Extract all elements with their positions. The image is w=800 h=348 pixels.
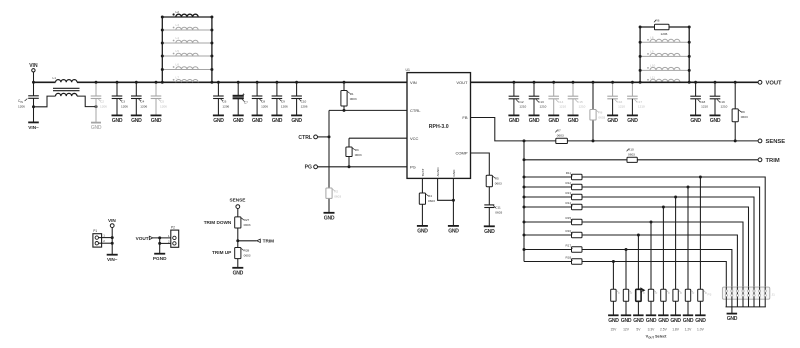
svg-text:GND: GND — [690, 118, 701, 124]
svg-text:GND: GND — [233, 270, 244, 276]
svg-text:TRIM UP: TRIM UP — [212, 250, 231, 255]
wire drop from rung 8 — [612, 262, 614, 290]
wire P1 vertical — [111, 228, 114, 255]
node VOUT label lower — [136, 236, 153, 241]
ground under C2 — [91, 123, 102, 132]
node VOUT terminal — [758, 80, 782, 86]
resistor R11 rung — [523, 171, 766, 287]
svg-text:L11: L11 — [650, 76, 655, 80]
capacitor C4 — [131, 81, 147, 116]
svg-text:C18: C18 — [700, 100, 706, 104]
svg-text:COMP: COMP — [456, 151, 468, 156]
node VIN terminal lower — [108, 218, 116, 227]
svg-text:P2: P2 — [171, 226, 175, 230]
svg-text:0603: 0603 — [334, 195, 341, 199]
wire drop from rung 7 — [625, 250, 627, 290]
svg-text:1210: 1210 — [579, 105, 586, 109]
svg-text:GND: GND — [417, 229, 428, 235]
connector J1 header — [708, 287, 776, 307]
wire header bottom bus — [726, 306, 766, 308]
resistor R21 vout-select 5V — [636, 287, 646, 315]
svg-text:GND: GND — [252, 118, 263, 124]
svg-text:1206: 1206 — [261, 104, 268, 108]
capacitor C6 — [213, 81, 229, 116]
svg-text:GND: GND — [695, 318, 706, 324]
ground under C17 — [627, 115, 638, 124]
wire drop from rung 6 — [637, 235, 639, 289]
capacitor C14 (DNI) — [548, 81, 566, 116]
svg-text:C13: C13 — [538, 100, 544, 104]
svg-text:GND: GND — [324, 215, 335, 221]
resistor R2 (DNI) — [326, 188, 341, 199]
svg-text:0603: 0603 — [355, 153, 362, 157]
capacitor C12 — [509, 81, 527, 116]
svg-text:R9: R9 — [741, 110, 745, 114]
wire left bank right rail — [210, 17, 213, 84]
capacitor C19 — [710, 81, 728, 116]
svg-text:R14: R14 — [565, 201, 571, 205]
svg-text:1206: 1206 — [140, 104, 147, 108]
label VOUT Select — [646, 335, 667, 340]
svg-text:C6: C6 — [222, 100, 226, 104]
svg-text:PGND: PGND — [153, 256, 167, 261]
svg-text:VOUT: VOUT — [456, 80, 468, 85]
wire ladder bus — [523, 141, 525, 262]
inductor L3 (DNI) — [161, 23, 214, 31]
wire input rail bank to IC — [212, 81, 407, 83]
svg-text:R5: R5 — [495, 176, 499, 180]
svg-text:GND: GND — [633, 318, 644, 324]
svg-text:P3: P3 — [708, 293, 712, 297]
resistor R6 — [639, 19, 691, 36]
svg-text:SENSE: SENSE — [766, 139, 786, 145]
resistor R14 rung — [523, 201, 749, 287]
svg-text:CTRL: CTRL — [410, 108, 421, 113]
wire drop from rung 1 — [699, 177, 701, 289]
node SENSE label lower — [230, 197, 246, 208]
svg-text:R8: R8 — [598, 111, 602, 115]
svg-text:1210: 1210 — [721, 105, 728, 109]
svg-text:C3: C3 — [121, 100, 125, 104]
svg-text:GND: GND — [452, 169, 456, 177]
svg-text:VIN–: VIN– — [28, 125, 39, 130]
svg-text:C19: C19 — [719, 100, 725, 104]
svg-text:1206: 1206 — [281, 104, 288, 108]
svg-text:L7: L7 — [176, 76, 180, 80]
svg-text:0603: 0603 — [244, 223, 251, 227]
svg-text:C2: C2 — [100, 100, 104, 104]
node TRIM terminal — [758, 158, 780, 164]
svg-text:1.8V: 1.8V — [672, 327, 680, 331]
ground under C7 — [233, 115, 244, 124]
svg-text:FB: FB — [462, 115, 467, 120]
resistor R16 rung — [523, 229, 738, 287]
svg-text:L5: L5 — [176, 49, 180, 53]
svg-text:L4: L4 — [176, 36, 180, 40]
resistor R13 rung — [523, 191, 755, 287]
svg-text:GND: GND — [151, 118, 162, 124]
wire trim line left — [523, 158, 628, 161]
svg-text:1210: 1210 — [519, 105, 526, 109]
svg-text:GND: GND — [548, 118, 559, 124]
svg-text:VIN: VIN — [410, 80, 417, 85]
svg-text:L10: L10 — [650, 64, 655, 68]
resistor R5 — [486, 175, 502, 187]
svg-text:R15: R15 — [565, 216, 571, 220]
wire COMP line — [471, 153, 490, 175]
wire GND pin — [452, 178, 454, 226]
node CTRL terminal — [298, 135, 329, 141]
svg-text:CTRL: CTRL — [298, 135, 312, 141]
svg-text:C17: C17 — [636, 100, 642, 104]
svg-text:R16: R16 — [565, 229, 571, 233]
svg-text:TRIM: TRIM — [263, 239, 275, 244]
ground under C16 — [607, 115, 618, 124]
label 2.5V — [660, 327, 668, 331]
svg-text:15V: 15V — [610, 327, 617, 331]
resistor R4 — [419, 178, 435, 226]
svg-text:1206: 1206 — [160, 104, 167, 108]
svg-text:3.3V: 3.3V — [648, 327, 656, 331]
svg-text:GND: GND — [608, 318, 619, 324]
svg-text:0603: 0603 — [428, 199, 435, 203]
capacitor C8 — [252, 81, 268, 116]
svg-text:TEST: TEST — [421, 168, 425, 176]
wire trim line right — [637, 159, 758, 161]
capacitor C17 (DNI) — [627, 81, 645, 116]
inductor L10 (DNI) — [639, 64, 691, 72]
svg-text:PG: PG — [305, 165, 312, 171]
capacitor C7 polarized — [233, 81, 249, 116]
ground under vout-select 15V — [608, 315, 619, 324]
resistor R23 vout-select 2.5V — [661, 289, 670, 315]
label 3.3V — [648, 327, 656, 331]
ground under C10 — [291, 115, 302, 124]
ground under C5 — [151, 115, 162, 124]
svg-text:VOUT Select: VOUT Select — [646, 335, 667, 340]
ground under R2 — [324, 213, 335, 222]
svg-text:R2: R2 — [334, 190, 338, 194]
wire drop from rung 3 — [675, 197, 677, 289]
ground under C13 — [529, 115, 540, 124]
svg-text:R27: R27 — [244, 218, 250, 222]
svg-text:0603: 0603 — [557, 134, 564, 138]
svg-text:GND: GND — [658, 318, 669, 324]
svg-text:GND: GND — [509, 118, 520, 124]
svg-text:C7: C7 — [244, 100, 248, 104]
svg-text:C15: C15 — [577, 100, 583, 104]
resistor R24 vout-select 1.8V — [673, 289, 682, 315]
svg-text:C12: C12 — [518, 100, 524, 104]
wire choke secondary right return — [77, 96, 98, 108]
svg-text:1206: 1206 — [121, 104, 128, 108]
svg-text:GND: GND — [646, 318, 657, 324]
svg-text:GND: GND — [448, 229, 459, 235]
svg-text:GND: GND — [272, 118, 283, 124]
svg-text:AGND: AGND — [436, 167, 440, 177]
svg-text:C8: C8 — [261, 100, 265, 104]
capacitor C18 — [690, 81, 708, 116]
svg-text:1206: 1206 — [222, 104, 229, 108]
wire drop from rung 2 — [687, 187, 689, 289]
ground under GND pin — [448, 226, 459, 235]
wire sense line to terminal — [523, 139, 759, 142]
svg-text:R17: R17 — [565, 243, 571, 247]
svg-text:C11: C11 — [495, 206, 501, 210]
svg-text:L8: L8 — [650, 36, 654, 40]
ground under vout-select 12V — [621, 315, 632, 324]
svg-text:C5: C5 — [160, 100, 164, 104]
capacitor C9 — [272, 81, 288, 116]
ground under trim divider — [232, 268, 243, 277]
resistor R19 vout-select 15V — [611, 289, 620, 315]
wire header ground stub — [731, 307, 733, 314]
svg-text:1.0V: 1.0V — [697, 327, 705, 331]
ground under vout-select 1.0V — [695, 315, 706, 324]
svg-text:R18: R18 — [565, 255, 571, 259]
svg-text:PG: PG — [410, 165, 416, 170]
resistor R9 — [732, 81, 748, 141]
svg-text:12V: 12V — [623, 327, 630, 331]
svg-text:R6: R6 — [656, 19, 660, 23]
ground under vout-select 3.3V — [646, 315, 657, 324]
svg-text:L2: L2 — [176, 10, 180, 14]
svg-text:L1: L1 — [53, 76, 57, 80]
ground under vout-select 2.5V — [658, 315, 669, 324]
resistor R15 rung — [523, 216, 744, 287]
resistor R10 — [627, 148, 638, 163]
wire input rail left — [34, 81, 56, 83]
wire P2 pgnd drop — [158, 238, 171, 254]
svg-text:TRIM: TRIM — [766, 158, 780, 164]
inductor L7 (DNI) on rail — [173, 76, 199, 83]
wire AGND pin — [438, 178, 455, 201]
wire VIN to rail — [32, 72, 35, 84]
svg-text:J1: J1 — [772, 293, 776, 297]
wire VOUT to P2 — [153, 236, 171, 239]
svg-text:GND: GND — [607, 118, 618, 124]
label 5V — [636, 327, 641, 331]
capacitor C13 — [529, 81, 547, 116]
power PGND symbol — [153, 254, 167, 261]
capacitor C5 (DNI) — [151, 81, 167, 116]
svg-text:VCC: VCC — [410, 136, 419, 141]
inductor L8 (DNI) — [639, 36, 691, 44]
label 15V — [610, 327, 617, 331]
svg-text:GND: GND — [484, 229, 495, 235]
node SENSE terminal — [758, 139, 785, 145]
wire CTRL line — [329, 109, 407, 111]
ground under R4 — [417, 226, 428, 235]
svg-text:L3: L3 — [176, 23, 180, 27]
resistor R7 — [555, 129, 567, 144]
resistor R28 trim up — [212, 248, 251, 268]
svg-text:GND: GND — [112, 118, 123, 124]
wire drop from rung 5 — [650, 222, 652, 289]
svg-text:1210: 1210 — [559, 105, 566, 109]
capacitor C10 — [291, 81, 307, 116]
wire choke secondary left return — [34, 96, 56, 107]
inductor L2 — [161, 10, 214, 18]
wire vout rail — [640, 81, 758, 83]
wire PG line — [318, 165, 408, 168]
svg-text:C10: C10 — [301, 100, 307, 104]
svg-text:P1: P1 — [93, 229, 97, 233]
svg-text:1206: 1206 — [301, 104, 308, 108]
svg-text:VIN: VIN — [108, 218, 116, 223]
inductor L6 (DNI) — [161, 63, 214, 71]
resistor R3 — [346, 138, 362, 167]
resistor R22 vout-select 3.3V — [648, 289, 657, 315]
label 12V — [623, 327, 630, 331]
ground under C15 — [568, 115, 579, 124]
ground under header — [727, 314, 738, 323]
svg-text:GND: GND — [529, 118, 540, 124]
svg-text:L6: L6 — [176, 63, 180, 67]
label 1.8V — [672, 327, 680, 331]
resistor R18 rung — [524, 255, 726, 287]
resistor R17 rung — [523, 243, 732, 287]
svg-text:VIN: VIN — [29, 63, 38, 69]
svg-text:R3: R3 — [355, 148, 359, 152]
wire CTRL vertical — [328, 110, 331, 212]
ground under C11 — [484, 226, 495, 235]
inductor L5 (DNI) — [161, 49, 214, 57]
wire trim node — [236, 228, 256, 248]
svg-text:0603: 0603 — [628, 153, 635, 157]
svg-text:1206: 1206 — [100, 104, 107, 108]
svg-text:GND: GND — [91, 125, 102, 131]
wire left bank left rail — [161, 17, 164, 84]
wire input rail choke to bank — [77, 81, 212, 83]
capacitor C11 — [484, 187, 502, 227]
svg-text:SENSE: SENSE — [230, 197, 246, 202]
ground under C18 — [690, 115, 701, 124]
wire right bank right rail — [688, 27, 691, 84]
node PG terminal — [305, 165, 318, 171]
wire FB to sense line — [471, 118, 556, 141]
inductor L9 (DNI) — [639, 50, 691, 58]
svg-text:0603: 0603 — [244, 254, 251, 258]
ground under C14 — [548, 115, 559, 124]
wire output rail — [471, 81, 641, 83]
ground under C3 — [112, 115, 123, 124]
svg-text:C14: C14 — [558, 100, 564, 104]
resistor R8 (DNI) — [590, 81, 606, 141]
ground under C19 — [710, 115, 721, 124]
svg-text:GND: GND — [291, 118, 302, 124]
inductor L4 (DNI) — [161, 36, 214, 44]
resistor R26 vout-select 1.0V — [698, 289, 707, 315]
inductor L1 common-mode choke — [53, 76, 80, 96]
resistor R12 rung — [523, 181, 760, 287]
svg-text:0603: 0603 — [598, 116, 605, 120]
svg-text:GND: GND — [233, 118, 244, 124]
ground under C4 — [131, 115, 142, 124]
svg-text:0603: 0603 — [741, 115, 748, 119]
ground under vout-select 1.2V — [683, 315, 694, 324]
svg-text:GND: GND — [727, 316, 738, 322]
ground under vout-select 1.8V — [670, 315, 681, 324]
svg-text:R28: R28 — [244, 249, 250, 253]
wire drop from rung 4 — [662, 207, 664, 289]
svg-text:1210: 1210 — [701, 105, 708, 109]
svg-text:VOUT: VOUT — [136, 236, 149, 241]
svg-text:2.5V: 2.5V — [660, 327, 668, 331]
svg-text:L9: L9 — [650, 50, 654, 54]
svg-text:GND: GND — [568, 118, 579, 124]
svg-text:GND: GND — [621, 318, 632, 324]
svg-text:GND: GND — [683, 318, 694, 324]
ground under vout-select 5V — [633, 315, 644, 324]
svg-text:GND: GND — [710, 118, 721, 124]
wire VCC line — [349, 137, 407, 139]
svg-text:GND: GND — [213, 118, 224, 124]
svg-text:R10: R10 — [628, 148, 634, 152]
label 1.2V — [685, 327, 693, 331]
label 1.0V — [697, 327, 705, 331]
resistor R1 — [341, 81, 357, 112]
svg-text:0603: 0603 — [495, 181, 502, 185]
connector P1 — [93, 229, 112, 247]
svg-text:C16: C16 — [617, 100, 623, 104]
svg-text:R13: R13 — [565, 191, 571, 195]
svg-text:U1: U1 — [406, 68, 410, 72]
capacitor C15 (DNI) — [568, 81, 586, 116]
ground under C12 — [508, 115, 519, 124]
svg-text:1210: 1210 — [540, 105, 547, 109]
resistor R27 trim down — [204, 209, 251, 229]
node TRIM label lower — [257, 239, 274, 244]
svg-text:R12: R12 — [565, 181, 571, 185]
svg-text:C9: C9 — [281, 100, 285, 104]
capacitor C16 (DNI) — [607, 81, 625, 116]
wire right bank left rail — [639, 27, 642, 84]
op-amp U1 module RPH-3.0 — [406, 68, 471, 178]
capacitor C2 (DNI) — [91, 81, 107, 123]
svg-text:1206: 1206 — [661, 32, 668, 36]
capacitor C1 CIN — [18, 82, 39, 121]
ground under C8 — [252, 115, 263, 124]
power VIN- symbol — [28, 122, 39, 129]
resistor R20 vout-select 12V — [623, 289, 632, 315]
connector P2 — [168, 226, 179, 248]
svg-text:1210: 1210 — [638, 105, 645, 109]
svg-text:1.2V: 1.2V — [685, 327, 693, 331]
capacitor C3 — [112, 81, 128, 116]
svg-text:0603: 0603 — [350, 97, 357, 101]
svg-text:0603: 0603 — [495, 211, 502, 215]
node VIN terminal — [29, 63, 38, 72]
svg-text:GND: GND — [627, 118, 638, 124]
svg-text:VOUT: VOUT — [766, 80, 783, 86]
svg-text:GND: GND — [670, 318, 681, 324]
ground under C9 — [271, 115, 282, 124]
svg-text:TRIM DOWN: TRIM DOWN — [204, 220, 232, 225]
svg-text:1210: 1210 — [618, 105, 625, 109]
svg-text:RPH-3.0: RPH-3.0 — [429, 124, 449, 130]
svg-text:R7: R7 — [557, 129, 561, 133]
ground under C6 — [213, 115, 224, 124]
resistor R25 vout-select 1.2V — [685, 289, 694, 315]
svg-text:CIN: CIN — [18, 99, 23, 104]
svg-text:C4: C4 — [140, 100, 144, 104]
svg-text:VIN–: VIN– — [107, 257, 118, 262]
svg-text:GND: GND — [131, 118, 142, 124]
svg-text:R11: R11 — [566, 171, 572, 175]
svg-text:R1: R1 — [350, 92, 354, 96]
svg-text:R4: R4 — [428, 194, 432, 198]
